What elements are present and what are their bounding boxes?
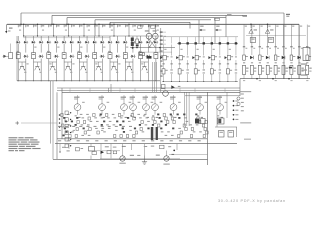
svg-text:30-0-420 PDF-X by pandafan: 30-0-420 PDF-X by pandafan bbox=[218, 199, 286, 203]
